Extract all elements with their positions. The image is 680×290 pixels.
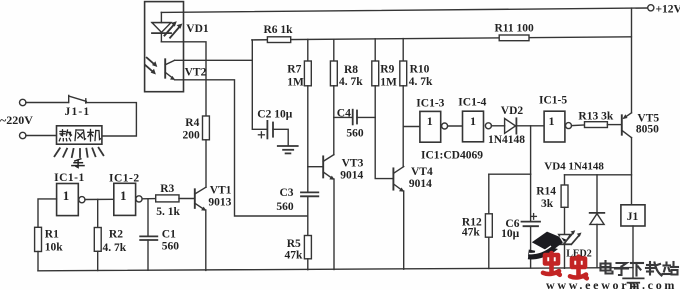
wire relay section top line	[565, 174, 632, 176]
wire J1 to ground	[632, 226, 634, 278]
svg-text:4. 7k: 4. 7k	[339, 76, 363, 88]
C2 plus sign	[258, 132, 264, 138]
wire to blower box	[26, 135, 57, 137]
resistor R9	[372, 61, 379, 86]
svg-text:C2 10μ: C2 10μ	[257, 108, 292, 120]
wire VT1 emitter to bottom rail	[205, 210, 207, 270]
svg-text:1M: 1M	[380, 77, 397, 89]
wire R7 column	[307, 39, 309, 61]
resistor R5	[304, 236, 311, 259]
子	[617, 263, 627, 267]
wire to IC1-4	[448, 125, 463, 127]
svg-text:R2: R2	[109, 228, 123, 240]
resistor R8	[330, 61, 337, 86]
node +12V terminal	[648, 5, 654, 11]
wire R3 to VT1 base	[179, 198, 195, 200]
svg-text:9013: 9013	[208, 196, 231, 208]
svg-text:10k: 10k	[45, 242, 64, 254]
transistor VT5	[622, 113, 632, 138]
svg-text:R3: R3	[160, 183, 174, 195]
blower label 热风机	[59, 130, 100, 142]
optocoupler box	[145, 2, 184, 92]
wire bottom rail	[38, 268, 633, 271]
wire IC1-1 input to R1	[38, 199, 57, 227]
inverter IC1-1	[57, 184, 79, 216]
wire C1 branch	[147, 199, 149, 237]
wire R9 column	[374, 39, 376, 61]
capacitor C3	[301, 192, 318, 196]
ground (C2)	[278, 146, 298, 153]
C6 plus sign	[531, 214, 537, 220]
svg-text:J1-1: J1-1	[65, 106, 91, 118]
resistor R14	[561, 185, 568, 207]
resistor R12	[485, 214, 492, 237]
wire IC1-1 out to IC1-2	[85, 198, 114, 200]
svg-text:47k: 47k	[462, 227, 481, 239]
svg-text:1: 1	[120, 188, 127, 203]
wire to VD2	[491, 125, 504, 127]
svg-text:IC1-2: IC1-2	[109, 173, 140, 185]
R12 branch and C6 (drawn before watermark)	[485, 174, 540, 268]
transistor VT1	[195, 187, 207, 211]
风	[75, 130, 76, 141]
svg-text:R7: R7	[287, 64, 301, 76]
capacitor C4	[334, 110, 375, 125]
svg-text:VT2: VT2	[185, 67, 207, 79]
svg-text:IC1-3: IC1-3	[416, 97, 444, 109]
svg-text:R6 1k: R6 1k	[264, 24, 294, 36]
wire +12V top rail	[161, 8, 648, 12]
svg-text:VT3: VT3	[342, 157, 364, 169]
svg-text:47k: 47k	[285, 250, 304, 262]
svg-text:4. 7k: 4. 7k	[409, 76, 433, 88]
diode VD1	[152, 12, 171, 41]
ground (J1)	[623, 278, 643, 286]
电	[601, 264, 611, 271]
svg-text:9014: 9014	[409, 178, 432, 190]
svg-text:560: 560	[346, 127, 364, 139]
VT2 incoming light arrows	[145, 58, 157, 75]
下	[631, 262, 643, 264]
站	[665, 263, 667, 265]
svg-text:IC1-5: IC1-5	[539, 95, 567, 107]
resistor R10	[400, 61, 407, 86]
svg-text:IC1-4: IC1-4	[458, 96, 486, 108]
svg-text:R11 100: R11 100	[495, 23, 535, 35]
svg-text:R8: R8	[344, 64, 358, 76]
svg-text:~220V: ~220V	[0, 113, 33, 127]
wire VT3 emitter to bottom rail	[333, 179, 335, 270]
watermark bug 虫 (1)	[543, 253, 560, 275]
svg-text:C4: C4	[337, 108, 351, 120]
机	[90, 130, 92, 142]
node terminal 220V bottom	[20, 132, 26, 138]
rays under blower	[55, 148, 104, 157]
svg-text:C3: C3	[280, 187, 294, 199]
svg-text:1: 1	[63, 188, 70, 203]
wire R4 to VT1 collector	[205, 140, 207, 188]
wire VT4 emitter to bottom rail	[403, 191, 405, 269]
relay J1	[621, 205, 645, 226]
svg-text:1: 1	[549, 114, 555, 128]
switch J1-1	[69, 95, 87, 103]
capacitor C6	[530, 174, 532, 221]
svg-text:VD4 1N4148: VD4 1N4148	[544, 160, 604, 172]
resistor R4	[203, 116, 210, 140]
wire VT5 collector down	[631, 138, 633, 205]
capacitor C1	[140, 236, 157, 240]
wire IC1-2 out to R3	[142, 198, 156, 200]
wire VT5 emitter column to +12V rail	[631, 8, 633, 113]
svg-text:10μ: 10μ	[501, 228, 519, 240]
svg-text:R4: R4	[185, 117, 199, 129]
svg-text:560: 560	[162, 240, 180, 252]
diode VD4	[590, 175, 605, 268]
wire R2 branch	[97, 199, 99, 227]
wire VT2 emitter to R5 junction	[175, 80, 308, 216]
wire R13 to VT5 base	[607, 124, 621, 126]
wire to R13	[572, 124, 585, 127]
hand label 手	[72, 159, 84, 168]
capacitor C2	[267, 121, 273, 138]
svg-text:9014: 9014	[340, 170, 363, 182]
svg-text:5. 1k: 5. 1k	[156, 206, 180, 218]
inverter IC1-3	[420, 111, 441, 142]
svg-text:R10: R10	[410, 64, 430, 76]
resistor R7	[304, 61, 311, 86]
svg-text:IC1-1: IC1-1	[54, 172, 85, 184]
transistor VT3	[308, 155, 335, 180]
svg-text:VT1: VT1	[210, 185, 232, 197]
inverter IC1-2	[114, 183, 136, 215]
svg-text:8050: 8050	[636, 123, 659, 135]
wire R6/R11 rail	[252, 37, 632, 40]
svg-text:IC1:CD4069: IC1:CD4069	[421, 150, 483, 162]
svg-text:200: 200	[183, 129, 201, 141]
svg-text:+12V: +12V	[656, 4, 680, 16]
resistor R3	[156, 195, 179, 202]
resistor R13	[585, 122, 608, 128]
resistor R6	[267, 37, 290, 43]
resistor R2	[94, 228, 101, 252]
node terminal 220V top	[20, 99, 26, 105]
wire C2 branch column	[252, 40, 266, 129]
wire VD2 to IC1-5 with junction	[516, 125, 544, 127]
wire R14 to LED2	[564, 207, 566, 234]
svg-text:1: 1	[427, 114, 433, 128]
inverter IC1-5	[544, 111, 565, 142]
watermark graduation cap	[528, 232, 567, 260]
wire R8 column	[333, 39, 335, 61]
wire junction down to C6	[530, 126, 532, 174]
wire R12 branch	[489, 173, 531, 175]
blower box 热风机	[57, 126, 102, 144]
svg-text:R9: R9	[380, 64, 394, 76]
inverter IC1-4	[463, 111, 484, 142]
diode VD2	[505, 118, 517, 133]
LED2 emission arrows	[565, 230, 581, 244]
wire VD1 cathode to R4 column	[161, 42, 206, 116]
svg-text:1: 1	[470, 114, 476, 128]
wire VT2 collector to C2 column	[175, 59, 253, 61]
transistor VT2 (photo)	[165, 59, 175, 80]
LED LED2	[559, 235, 571, 269]
热	[61, 130, 63, 136]
svg-text:www.eeworm.com: www.eeworm.com	[546, 278, 677, 290]
svg-text:4. 7k: 4. 7k	[103, 242, 127, 254]
resistor R1	[35, 227, 42, 251]
watermark text 电子下载站	[601, 261, 679, 276]
wire IC1-3 input	[403, 126, 420, 128]
svg-text:3k: 3k	[541, 198, 554, 210]
wire to switch	[26, 102, 69, 104]
svg-text:R14: R14	[536, 186, 556, 198]
svg-text:R5: R5	[287, 238, 301, 250]
watermark bug 虫 (2)	[570, 257, 587, 279]
svg-text:VD2: VD2	[501, 105, 524, 117]
transistor VT4	[393, 167, 404, 192]
svg-text:R13 3k: R13 3k	[578, 110, 613, 122]
svg-text:J1: J1	[627, 211, 639, 223]
svg-text:VD1: VD1	[186, 23, 209, 35]
svg-text:R1: R1	[45, 229, 59, 241]
svg-text:C1: C1	[162, 228, 176, 240]
resistor R11	[499, 35, 529, 41]
wire R10 column	[402, 39, 404, 61]
svg-text:1N4148: 1N4148	[488, 134, 525, 146]
VD1 emission arrows	[165, 21, 183, 37]
wire down to R14	[564, 175, 566, 185]
svg-text:VT4: VT4	[411, 166, 433, 178]
wire switch to blower box	[86, 103, 137, 136]
载	[647, 264, 654, 266]
svg-text:560: 560	[276, 201, 294, 213]
svg-text:1M: 1M	[287, 77, 304, 89]
